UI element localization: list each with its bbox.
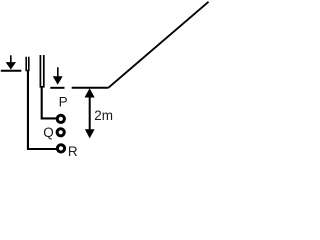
svg-text:P: P — [59, 95, 68, 110]
svg-text:Q: Q — [43, 125, 54, 140]
wire tube T1 to point R — [28, 71, 57, 150]
sloping channel line — [108, 2, 208, 88]
svg-text:R: R — [68, 144, 78, 159]
dimension arrow stem — [89, 93, 91, 133]
point Q circle — [57, 129, 64, 136]
water-level symbol W1 stem — [10, 55, 12, 63]
free-surface horizontal line — [72, 87, 109, 89]
wire tube T2 to point P — [42, 87, 57, 119]
water-level symbol W2 base line — [50, 87, 64, 89]
piezometer tube T2 — [40, 55, 43, 87]
point R circle — [57, 145, 64, 152]
water-level symbol W2 stem — [57, 67, 59, 77]
svg-text:2m: 2m — [94, 108, 113, 123]
point P circle — [57, 115, 64, 122]
water-level symbol W1 triangle — [6, 62, 16, 69]
dimension arrow bottom head — [85, 129, 95, 138]
dimension arrow top head — [85, 88, 95, 97]
piezometer tube T1 — [26, 57, 29, 71]
water-level symbol W2 triangle — [53, 76, 63, 85]
water-level symbol W1 base line — [1, 70, 22, 72]
